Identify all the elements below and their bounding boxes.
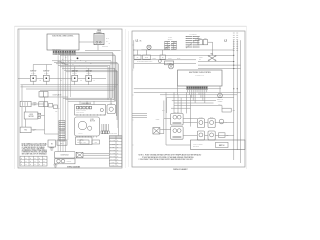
svg-text:CONV: CONV bbox=[90, 119, 94, 121]
svg-text:GY WIRE: GY WIRE bbox=[110, 153, 115, 155]
svg-text:LOCK: LOCK bbox=[29, 114, 33, 116]
svg-text:BU: BU bbox=[85, 61, 87, 63]
svg-text:L1 BK N W GD GN: L1 BK N W GD GN bbox=[76, 110, 86, 112]
svg-text:DOOR: DOOR bbox=[199, 57, 203, 59]
svg-text:OR: OR bbox=[72, 64, 74, 66]
svg-text:HI-LIMIT: HI-LIMIT bbox=[188, 44, 193, 46]
svg-text:DOOR SW: DOOR SW bbox=[102, 45, 109, 47]
svg-text:1 2 3 4 5: 1 2 3 4 5 bbox=[78, 133, 83, 135]
svg-text:Y WIRE: Y WIRE bbox=[110, 162, 114, 164]
svg-text:BLOCK KIT: BLOCK KIT bbox=[77, 140, 84, 142]
svg-text:BK WIRE: BK WIRE bbox=[110, 140, 115, 142]
svg-text:MDL: MDL bbox=[211, 54, 214, 56]
svg-text:SER 30166: SER 30166 bbox=[193, 146, 199, 148]
svg-text:RES: RES bbox=[233, 110, 236, 112]
svg-text:MOTOR: MOTOR bbox=[67, 161, 72, 163]
svg-text:BROIL: BROIL bbox=[177, 58, 181, 60]
svg-text:BK: BK bbox=[137, 57, 139, 59]
svg-text:ELECTRONIC OVEN CONTROL: ELECTRONIC OVEN CONTROL bbox=[52, 36, 73, 38]
svg-text:LIGHT: LIGHT bbox=[33, 129, 37, 131]
svg-text:LIGHT: LIGHT bbox=[33, 104, 37, 106]
svg-text:ELECTRONIC OVEN CONTROL: ELECTRONIC OVEN CONTROL bbox=[189, 72, 211, 74]
svg-text:MOTOR: MOTOR bbox=[29, 116, 34, 118]
svg-text:WIRE CODE: WIRE CODE bbox=[110, 133, 117, 135]
svg-text:P10: P10 bbox=[24, 130, 27, 132]
svg-text:OR WIRE: OR WIRE bbox=[110, 159, 115, 161]
svg-text:SURF SW: SURF SW bbox=[86, 71, 93, 73]
svg-text:SURF SW: SURF SW bbox=[43, 71, 50, 73]
svg-text:OVEN: OVEN bbox=[33, 103, 37, 105]
svg-text:MDL: MDL bbox=[204, 38, 207, 40]
svg-text:BU WIRE: BU WIRE bbox=[110, 150, 115, 152]
svg-text:BK R: BK R bbox=[162, 110, 165, 112]
svg-text:TB: TB bbox=[51, 143, 53, 145]
svg-text:P1 P2 P3 P4 P5: P1 P2 P3 P4 P5 bbox=[195, 75, 204, 77]
svg-text:1 2 3 4 5 6 7 8 9: 1 2 3 4 5 6 7 8 9 bbox=[52, 49, 61, 51]
svg-text:MOTOR: MOTOR bbox=[218, 101, 223, 103]
svg-text:V WIRE: V WIRE bbox=[110, 165, 114, 167]
svg-text:DOOR: DOOR bbox=[156, 118, 160, 120]
svg-text:W WIRE: W WIRE bbox=[110, 143, 115, 145]
svg-text:P12: P12 bbox=[95, 142, 97, 144]
svg-text:1 2 3 4 5 6 7 8: 1 2 3 4 5 6 7 8 bbox=[76, 112, 84, 114]
svg-text:P11: P11 bbox=[83, 142, 85, 144]
svg-text:SURF SW: SURF SW bbox=[72, 71, 79, 73]
svg-text:DOOR LOCK: DOOR LOCK bbox=[61, 155, 69, 157]
svg-text:XFMR: XFMR bbox=[97, 30, 101, 32]
svg-text:SURF SW: SURF SW bbox=[30, 71, 37, 73]
svg-text:GY: GY bbox=[90, 62, 92, 64]
svg-text:MOTOR: MOTOR bbox=[90, 121, 95, 123]
svg-text:BK: BK bbox=[140, 40, 142, 42]
svg-text:P13: P13 bbox=[55, 111, 57, 113]
svg-text:BR WIRE: BR WIRE bbox=[110, 156, 115, 158]
svg-text:DLB: DLB bbox=[199, 38, 202, 40]
svg-text:R WIRE: R WIRE bbox=[110, 146, 114, 148]
svg-text:BROIL: BROIL bbox=[210, 117, 214, 119]
svg-text:BR: BR bbox=[162, 57, 164, 59]
